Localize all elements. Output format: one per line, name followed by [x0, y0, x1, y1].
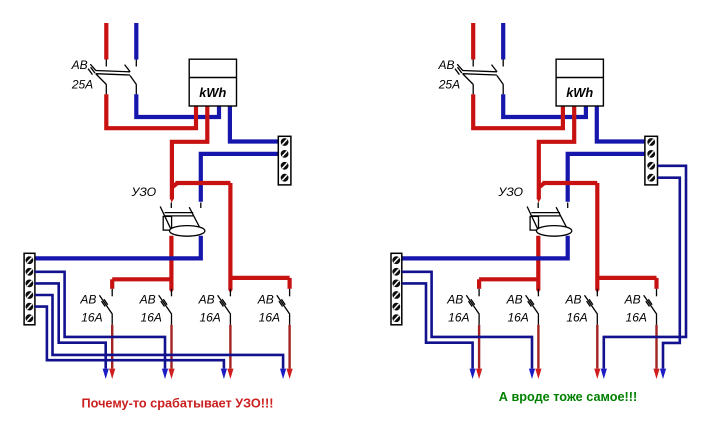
svg-text:16А: 16А [626, 310, 647, 324]
wire L bus to breaker 1 [112, 277, 171, 281]
svg-text:А вроде тоже самое!!!: А вроде тоже самое!!! [499, 390, 637, 404]
wire L RCD output down to breaker group 1 [169, 236, 173, 290]
circuit breaker QF2b (АВ 16А) [466, 289, 479, 325]
svg-text:АВ: АВ [506, 292, 523, 306]
arrow L load 1 (left) [109, 369, 115, 379]
wire N terminal block to RCD input [201, 154, 278, 202]
wire L bus to breaker 4 [230, 276, 289, 280]
wire N RCD output to neutral bus block [402, 236, 568, 259]
arrow L load 2 (right) [535, 369, 541, 379]
junction taper L bus 1 [536, 290, 540, 294]
RCD QD1a (УЗО, 2-pole with differential transformer) [160, 203, 205, 237]
wire meter pin4 N to terminal block [230, 106, 278, 142]
wire L node chamfer [539, 183, 545, 188]
wire N from breaker QF1a to meter pin3 [136, 94, 219, 117]
wire L output of QF2b [478, 325, 480, 369]
arrow N load (left) [221, 369, 227, 379]
wire N feed to load 3 (left) [35, 307, 224, 369]
wire L output of QF4b [596, 325, 598, 369]
svg-text:16А: 16А [141, 310, 162, 324]
svg-text:АВ: АВ [564, 292, 581, 306]
svg-text:АВ: АВ [257, 292, 274, 306]
svg-text:АВ: АВ [624, 292, 641, 306]
circuit breaker QF3b (АВ 16А) [526, 289, 539, 325]
wire L down to breaker group 2 bus [595, 183, 599, 290]
svg-text:АВ: АВ [198, 292, 215, 306]
svg-text:АВ: АВ [139, 292, 156, 306]
wire L output of QF5b [655, 325, 657, 369]
arrow L load 4 (right) [653, 369, 659, 379]
circuit breaker QF1b (АВ 25А, 2-pole) [455, 60, 503, 95]
wire L RCD output down to breaker group 1 [536, 236, 540, 290]
circuit breaker QF5b (АВ 16А) [644, 289, 657, 325]
junction taper at RCD L input [170, 198, 174, 203]
svg-text:АВ: АВ [71, 58, 88, 72]
junction taper at RCD L input [537, 198, 541, 203]
wire L node to right breaker group [176, 181, 231, 185]
arrow L load 3 (right) [594, 369, 600, 379]
svg-text:16А: 16А [199, 310, 220, 324]
svg-text:АВ: АВ [79, 292, 96, 306]
wire L output of QF5a [288, 325, 290, 369]
svg-text:16А: 16А [507, 310, 528, 324]
svg-text:25А: 25А [438, 77, 460, 91]
svg-text:Почему-то срабатывает УЗО!!!: Почему-то срабатывает УЗО!!! [82, 397, 274, 411]
RCD QD1b (УЗО, 2-pole with differential transformer) [527, 203, 572, 237]
arrow N load (left) [162, 369, 168, 379]
arrow L load 3 (left) [227, 369, 233, 379]
wire L down to breaker group 2 bus [228, 183, 232, 290]
wire L node to right breaker group [543, 181, 598, 185]
wire meter pin2 L out to node [539, 106, 574, 199]
energy meter PI1a (kWh) [189, 59, 236, 106]
wire L phase supply top (left) [104, 23, 108, 60]
wire N supply top (right) [501, 23, 505, 60]
svg-text:УЗО: УЗО [131, 185, 157, 199]
wire N feed to load 2 (right) [402, 272, 532, 369]
wire N RCD output to neutral bus block [35, 236, 201, 259]
wire N feed to load 1 (right) [402, 283, 473, 368]
svg-text:16А: 16А [259, 310, 280, 324]
svg-text:АВ: АВ [446, 292, 463, 306]
wire L from breaker QF1a to meter pin1 [106, 94, 196, 128]
svg-text:16А: 16А [448, 310, 469, 324]
wire N feed to load 2 (left) [35, 272, 165, 369]
terminal block XT1a (N bus) [24, 253, 35, 324]
wire L bus drop to breaker 4 pin [288, 278, 292, 289]
arrow N load (right) [529, 369, 535, 379]
arrow N load (right) [470, 369, 476, 379]
wire L bus to breaker 1 [479, 277, 538, 281]
wire L node chamfer [172, 183, 178, 188]
wire L output of QF4a [229, 325, 231, 369]
wire N feed to load 1 (left) [35, 283, 106, 368]
wire meter pin4 N to terminal block [597, 106, 645, 142]
wire L bus drop to breaker 1 pin [477, 279, 481, 289]
svg-text:16А: 16А [81, 310, 102, 324]
wire L output of QF3a [170, 325, 172, 369]
wire L from breaker QF1b to meter pin1 [473, 94, 563, 128]
arrow N load (right) [601, 369, 607, 379]
circuit breaker QF4a (АВ 16А) [218, 289, 231, 325]
energy meter PI1b (kWh) [556, 59, 603, 106]
svg-text:АВ: АВ [437, 58, 454, 72]
wire meter pin2 L out to node [172, 106, 207, 199]
arrow L load 4 (left) [287, 369, 293, 379]
circuit breaker QF5a (АВ 16А) [277, 289, 290, 325]
arrow N load (left) [280, 369, 286, 379]
svg-text:УЗО: УЗО [497, 185, 523, 199]
circuit breaker QF2a (АВ 16А) [99, 289, 112, 325]
terminal block XT1b (N bus) [391, 253, 402, 324]
wire L bus drop to breaker 1 pin [110, 279, 114, 289]
arrow N load (right) [660, 369, 666, 379]
svg-text:kWh: kWh [566, 85, 593, 100]
terminal block XT2a [278, 136, 291, 185]
arrow L load 1 (right) [476, 369, 482, 379]
terminal block XT2b [645, 136, 658, 185]
junction taper L bus 2 [228, 290, 232, 294]
wire N from breaker QF1b to meter pin3 [503, 94, 586, 117]
circuit breaker QF4b (АВ 16А) [585, 289, 598, 325]
arrow N load (left) [103, 369, 109, 379]
wire L output of QF2a [111, 325, 113, 369]
svg-text:kWh: kWh [199, 85, 226, 100]
wire L bus drop to breaker 4 pin [654, 278, 658, 289]
svg-text:25А: 25А [71, 77, 93, 91]
junction taper L bus 1 [169, 290, 173, 294]
wire L bus to breaker 4 [597, 276, 656, 280]
wire N feed to load 3 (from XT2b) (right) [604, 166, 686, 369]
junction taper L bus 2 [595, 290, 599, 294]
wire N feed to load 4 (left) [35, 295, 283, 369]
wire L phase supply top (right) [471, 23, 475, 60]
wire L output of QF3b [537, 325, 539, 369]
circuit breaker QF3a (АВ 16А) [159, 289, 172, 325]
wire N feed to load 4 (from XT2b) (right) [658, 178, 680, 369]
arrow L load 2 (left) [168, 369, 174, 379]
svg-text:16А: 16А [566, 310, 587, 324]
wire N terminal block to RCD input [568, 154, 646, 202]
circuit breaker QF1a (АВ 25А, 2-pole) [88, 60, 136, 95]
wire N supply top (left) [134, 23, 138, 60]
